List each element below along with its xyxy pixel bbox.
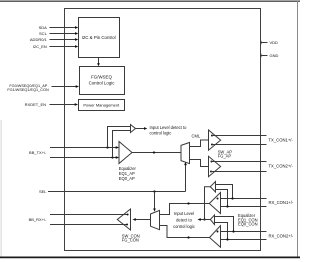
node BBRX-: [126, 224, 128, 226]
amp equalizer CON2: [210, 226, 221, 248]
node tap RX_CON2-: [226, 238, 228, 240]
svg-text:EQ0_CON: EQ0_CON: [238, 222, 258, 227]
svg-text:FG_AP: FG_AP: [218, 154, 232, 159]
svg-text:SCL: SCL: [39, 31, 48, 36]
wire mux out bottom to CML2: [190, 160, 209, 167]
svg-text:FG1/WSEQ1/EQ1_CON: FG1/WSEQ1/EQ1_CON: [7, 88, 49, 92]
node TX1+: [211, 135, 213, 137]
svg-text:TX_CON1+/-: TX_CON1+/-: [269, 138, 294, 143]
svg-text:detect to: detect to: [176, 217, 192, 222]
amp level detect RX2: [210, 215, 214, 225]
amp level detect RX1: [210, 182, 215, 193]
Power Management block: [79, 100, 125, 111]
node TX2-: [210, 171, 212, 173]
wire RX_CON1-: [221, 206, 267, 208]
wire detect RX1 input -: [216, 190, 228, 207]
wire SEL down to RX mux: [154, 192, 156, 210]
node tap BB_TX+: [106, 146, 108, 148]
amp CML driver TX1: [209, 130, 221, 150]
mux RX (2:1): [151, 210, 160, 229]
wire RX_CON2-: [221, 239, 267, 241]
svg-text:ADDR0/1: ADDR0/1: [30, 37, 48, 42]
wire SEL: [48, 191, 186, 193]
amp equalizer CON1: [209, 193, 220, 214]
svg-text:Input Level: Input Level: [174, 211, 194, 216]
wire RXDET_EN: [50, 104, 76, 106]
chip outline box: [65, 9, 261, 251]
amp input-level-detect AP: [131, 125, 136, 133]
page frame right rule: [297, 1, 299, 257]
wire RX_CON1+: [221, 198, 267, 200]
page frame top rule: [0, 0, 300, 2]
wire TX_CON1+: [212, 135, 267, 137]
wire BB_RX-: [50, 224, 127, 226]
node tap BB_TX-: [111, 156, 113, 158]
wire detect RX1 output: [205, 187, 211, 220]
svg-text:FG_CON: FG_CON: [122, 238, 139, 243]
wire SCL: [50, 33, 76, 35]
amp CML driver TX2: [209, 156, 221, 176]
node merge detect outputs: [203, 218, 205, 220]
node TX1-: [211, 144, 213, 146]
wire detect output arrow: [136, 128, 145, 130]
wire I2C_EN: [50, 46, 76, 48]
node inside EQ2: [217, 231, 219, 233]
wire BB_TX+: [50, 147, 116, 149]
wire BB_TX-: [50, 157, 116, 159]
node inside EQ1: [217, 198, 219, 200]
wire detect merged output arrow: [200, 219, 210, 221]
node TX2+: [211, 161, 213, 163]
node tap RX_CON1-: [226, 205, 228, 207]
wire RX_CON2+: [221, 231, 267, 233]
wire I2C box to FG/WSEQ box: [98, 58, 100, 64]
wire FG0/FG1 pins: [52, 86, 77, 88]
amp equalizer AP: [119, 142, 132, 164]
wire TX_CON2-: [211, 171, 267, 173]
page frame bottom rule: [0, 256, 300, 258]
svg-text:FG/WSEQ: FG/WSEQ: [91, 74, 112, 79]
svg-text:CML: CML: [192, 134, 201, 139]
pin VDD: [260, 42, 268, 44]
I2C & Pin Control block: [79, 18, 120, 58]
wire TX_CON2+: [212, 161, 267, 163]
svg-text:I2C_EN: I2C_EN: [33, 44, 47, 49]
wire SEL up to TX mux: [185, 165, 187, 192]
svg-text:control logic: control logic: [150, 131, 172, 136]
node on EQ1_CON output: [187, 202, 189, 204]
wire mux out top to CML1: [190, 140, 209, 147]
wire RX mux bottom input from EQ2: [160, 226, 210, 238]
svg-text:RXDET_EN: RXDET_EN: [25, 102, 46, 107]
svg-text:Input Level detect to: Input Level detect to: [150, 125, 188, 130]
wire RX mux output to CON driver: [136, 219, 151, 221]
wire SDA: [50, 27, 76, 29]
svg-text:Power Management: Power Management: [83, 103, 120, 108]
wire TX_CON1-: [212, 144, 267, 146]
svg-text:BB_TX+/-: BB_TX+/-: [29, 150, 47, 155]
node on EQ2_CON output: [187, 236, 189, 238]
svg-text:I2C & Pin Control: I2C & Pin Control: [82, 35, 116, 40]
pin GND: [260, 55, 268, 57]
amp CML driver CON (to BB_RX): [117, 209, 130, 230]
svg-text:SEL: SEL: [39, 189, 47, 194]
wire detect RX1 input +: [216, 185, 233, 199]
wire riser to level detect (-): [113, 131, 131, 158]
wire detect RX2 input -: [215, 223, 228, 240]
svg-text:TX_CON2+/-: TX_CON2+/-: [269, 164, 294, 169]
node on AP output: [153, 151, 155, 153]
svg-text:VDD: VDD: [270, 40, 279, 45]
svg-text:RX_CON1+/-: RX_CON1+/-: [269, 200, 294, 205]
node SEL branch: [153, 190, 155, 192]
wire riser to level detect (+): [108, 127, 131, 148]
wire equalizer AP output: [132, 152, 181, 154]
mux TX (1:2): [181, 143, 190, 164]
wire RX mux top input from EQ1: [160, 204, 210, 215]
wire ADDR0/1: [50, 39, 76, 41]
wire BB_RX+: [50, 214, 128, 216]
node BBRX+: [127, 214, 129, 216]
svg-text:control logic: control logic: [173, 224, 195, 229]
page frame left rule: [0, 120, 2, 257]
svg-text:BB_RX+/-: BB_RX+/-: [29, 217, 48, 222]
svg-text:Control Logic: Control Logic: [89, 80, 116, 85]
node tap RX_CON2+: [232, 230, 234, 232]
svg-text:EQ0_AP: EQ0_AP: [119, 176, 135, 181]
wire detect RX2 input +: [215, 217, 234, 232]
svg-text:SDA: SDA: [39, 25, 48, 30]
node tap RX_CON1+: [231, 197, 233, 199]
FG/WSEQ Control Logic block: [80, 67, 125, 95]
svg-text:RX_CON2+/-: RX_CON2+/-: [269, 234, 294, 239]
svg-text:GND: GND: [270, 53, 279, 58]
